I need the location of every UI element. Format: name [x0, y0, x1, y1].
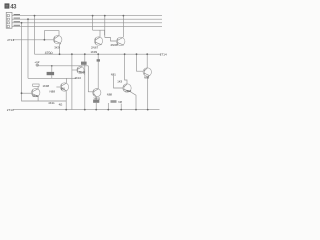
svg-text:N88: N88 — [107, 93, 113, 97]
transistor Q3 — [117, 37, 125, 45]
transistor Q7 — [93, 89, 101, 97]
junction (121.2,109.6) — [120, 109, 122, 111]
wire Q4 base — [72, 69, 77, 71]
svg-text:N89: N89 — [144, 75, 150, 79]
junction (147.2,54.2) — [146, 53, 148, 55]
transistor Q6 — [32, 88, 40, 96]
wire Q2 collector bracket — [93, 30, 105, 35]
svg-text:1K99: 1K99 — [91, 50, 98, 54]
wire dropper x136.5 Q9 base — [137, 54, 144, 71]
resistor box R5 — [111, 100, 117, 103]
wire Q5 collector branch — [28, 78, 67, 83]
bus line 4 — [12, 25, 162, 27]
wire Q7 base riser — [88, 66, 93, 92]
junction (59.5,54.2) — [59, 53, 61, 55]
wire input 2T13 — [13, 39, 54, 41]
junction (21.5,93.2) — [21, 92, 23, 94]
wire branch x121 — [120, 104, 122, 110]
transistor Q2 — [94, 37, 102, 45]
wire Q4 emitter — [83, 73, 85, 75]
wire Q1 emitter drop — [60, 43, 61, 54]
wire label branch x108 — [107, 103, 109, 110]
svg-text:+12: +12 — [34, 60, 39, 64]
svg-text:4K10: 4K10 — [75, 76, 82, 80]
junction (84.8,54.2) — [84, 53, 86, 55]
wire terminal stub — [36, 64, 38, 66]
wire mid rail — [35, 53, 162, 55]
wire Q9 emitter — [148, 75, 150, 109]
wire Q7 emitter low — [95, 103, 97, 110]
wire dropper x124.6 Q8 collector — [125, 54, 127, 84]
svg-text:2N68: 2N68 — [111, 43, 119, 47]
bus line 1 — [12, 15, 162, 17]
wire Q5 emitter — [65, 91, 67, 110]
svg-text:N8: N8 — [118, 100, 122, 104]
wire Q7 emitter — [95, 97, 97, 100]
wire dropper x147.2 Q9 collector — [146, 54, 148, 68]
wire tap V4 — [92, 16, 94, 31]
svg-text:470Ω: 470Ω — [45, 51, 54, 55]
svg-text:2N67: 2N67 — [91, 45, 99, 49]
junction (71.9,54.2) — [71, 53, 73, 55]
svg-text:160Ω: 160Ω — [93, 97, 100, 101]
resistor box R1 — [81, 62, 87, 65]
junction (98.2,54.2) — [97, 53, 99, 55]
wire dropper x98.2 Q7 collector — [97, 54, 99, 88]
svg-text:N88: N88 — [50, 90, 56, 94]
wire tap V5 — [104, 16, 106, 38]
svg-text:2I6Ω: 2I6Ω — [125, 89, 131, 93]
transistor Q9 — [143, 68, 151, 76]
wire Q6 base — [22, 92, 33, 94]
bus line 2 — [12, 18, 162, 20]
svg-text:2T13: 2T13 — [7, 38, 14, 42]
wire tap V6 — [122, 16, 124, 38]
svg-text:2I6: 2I6 — [61, 86, 65, 90]
bus line 3 — [12, 22, 162, 24]
wire V1 low branch — [22, 93, 67, 101]
junction (28,19.2) — [27, 18, 29, 20]
junction (136.5,54.2) — [136, 53, 138, 55]
transistor Q4 — [77, 66, 84, 73]
junction (124.6,54.2) — [124, 53, 126, 55]
resistor box R4 160 — [93, 100, 99, 103]
resistor blob R2 — [97, 59, 100, 61]
wire dropper x84.8 — [84, 54, 86, 109]
transistor Q8 — [123, 84, 131, 92]
svg-text:1K98: 1K98 — [43, 84, 50, 88]
junction (147.7,109.6) — [147, 109, 149, 111]
svg-text:N81: N81 — [111, 73, 117, 77]
wire R6 chain top — [51, 66, 53, 72]
svg-text:2T14: 2T14 — [160, 53, 167, 57]
svg-text:2T13: 2T13 — [7, 108, 14, 112]
wire R6 chain bottom — [51, 75, 53, 78]
title 図4.3 — [5, 3, 18, 10]
junction dots — [21, 15, 149, 111]
wire Q8 emitter — [130, 92, 136, 110]
wire dropper x71.9 — [71, 54, 73, 109]
junction (92.6,15.6) — [92, 15, 94, 17]
junction (51.8,65.8) — [51, 65, 53, 67]
svg-text:4K11: 4K11 — [32, 94, 39, 98]
junction (21.5,22.8) — [21, 22, 23, 24]
junction (104.8,15.6) — [104, 15, 106, 17]
connector J1 — [6, 12, 12, 28]
resistor box R6 — [47, 72, 55, 75]
transistor Q5 — [60, 83, 68, 91]
wire Q6 emitter — [37, 96, 39, 101]
svg-text:1K9: 1K9 — [117, 79, 122, 83]
junction (84.8,109.6) — [84, 109, 86, 111]
wire tap V2 — [27, 19, 29, 78]
wire Q5 branch ext — [67, 77, 77, 79]
junction (123.4,15.6) — [123, 15, 125, 17]
wire link y65.8 — [37, 65, 88, 67]
wire tap V1 — [21, 23, 23, 93]
wire Q2 collector riser — [99, 30, 101, 37]
junction (34.5,15.6) — [34, 15, 36, 17]
wire tap V3 — [34, 16, 36, 55]
wire bottom rail — [13, 109, 159, 111]
wire Q5 base stub — [56, 86, 60, 88]
svg-text:4Ω: 4Ω — [59, 102, 63, 106]
junction (44.4,39.8) — [44, 39, 46, 41]
transistor Q1 — [54, 35, 62, 43]
junction (136,109.6) — [135, 109, 137, 111]
wire Q8 base feed — [114, 76, 124, 88]
wire Q1 collector loop — [44, 31, 59, 40]
terminal circle +12 — [36, 64, 38, 66]
resistor box R3 1K98 — [33, 84, 39, 86]
junction (108.3,109.6) — [107, 109, 109, 111]
wire Q3 base — [105, 38, 117, 42]
svg-text:4K11: 4K11 — [48, 101, 55, 105]
wire Q6 collector — [37, 86, 39, 89]
svg-text:4K11: 4K11 — [79, 70, 86, 74]
bus tick labels — [14, 14, 20, 26]
junction (96.2,109.6) — [95, 109, 97, 111]
junction (66.2,109.6) — [65, 109, 67, 111]
svg-text:3K9: 3K9 — [54, 45, 60, 49]
